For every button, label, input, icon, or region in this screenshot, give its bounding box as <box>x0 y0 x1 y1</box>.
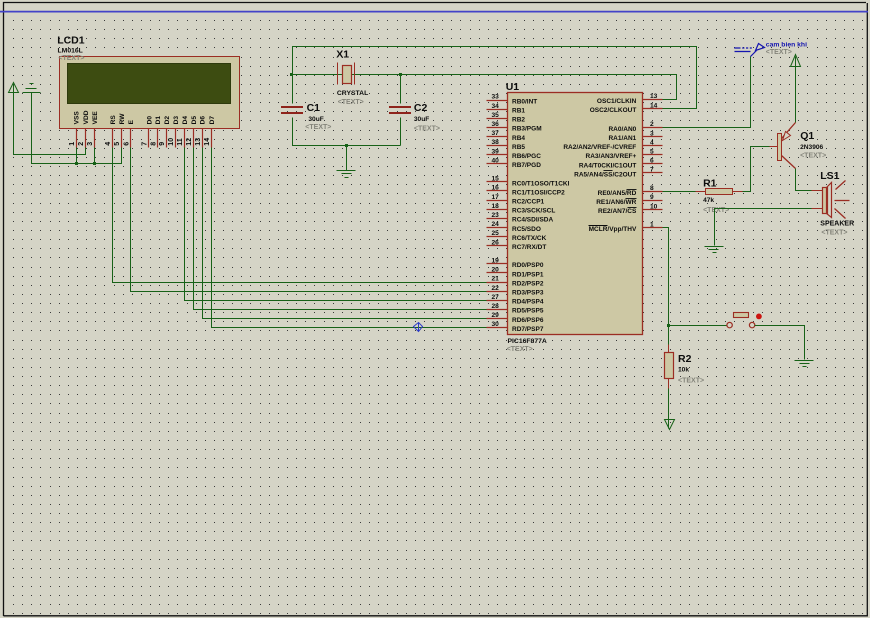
svg-text:RE2/AN7/CS: RE2/AN7/CS <box>598 208 637 215</box>
svg-text:22: 22 <box>491 285 499 292</box>
wire crystal to OSC1 <box>293 75 677 100</box>
svg-text:D7: D7 <box>209 116 216 125</box>
svg-text:RD7/PSP7: RD7/PSP7 <box>512 326 544 333</box>
svg-text:OSC1/CLKIN: OSC1/CLKIN <box>597 98 637 105</box>
wire R1 to Q1 base <box>743 147 770 192</box>
svg-text:30: 30 <box>491 321 499 328</box>
svg-text:26: 26 <box>491 239 499 246</box>
svg-text:RE1/AN6/WR: RE1/AN6/WR <box>596 199 636 206</box>
svg-text:C2: C2 <box>414 102 428 114</box>
svg-text:RB7/PGD: RB7/PGD <box>512 162 541 169</box>
svg-text:10: 10 <box>650 203 658 210</box>
wire button to ground <box>755 326 805 360</box>
svg-text:8: 8 <box>150 142 157 146</box>
wire D4 to RD4(27) <box>185 148 487 301</box>
wire VSS to ground rail <box>76 148 78 164</box>
svg-text:D0: D0 <box>146 116 153 125</box>
svg-text:RC6/TX/CK: RC6/TX/CK <box>512 235 547 242</box>
svg-text:RA0/AN0: RA0/AN0 <box>608 126 636 133</box>
svg-text:25: 25 <box>491 230 499 237</box>
label C1 <box>305 102 331 131</box>
wire D7 to RD7(30) <box>212 148 487 328</box>
svg-text:2: 2 <box>650 121 654 128</box>
wire RS to RD2(21) <box>113 148 487 283</box>
svg-text:8: 8 <box>650 185 654 192</box>
svg-text:RD6/PSP6: RD6/PSP6 <box>512 317 544 324</box>
svg-text:CRYSTAL: CRYSTAL <box>337 90 368 97</box>
svg-text:39: 39 <box>491 148 499 155</box>
junction crystal right <box>399 73 402 76</box>
svg-text:<TEXT>: <TEXT> <box>678 378 704 385</box>
svg-text:14: 14 <box>650 102 658 109</box>
svg-text:D2: D2 <box>164 116 171 125</box>
svg-text:7: 7 <box>142 142 149 146</box>
svg-text:3: 3 <box>650 130 654 137</box>
svg-text:VSS: VSS <box>74 111 81 125</box>
input terminal cam bien khi <box>734 44 764 57</box>
wire power to emitter <box>795 57 797 123</box>
resistor R2 <box>665 345 674 389</box>
junction cap ground <box>345 144 348 147</box>
label Q1 <box>800 130 826 159</box>
svg-text:RD3/PSP3: RD3/PSP3 <box>512 290 544 297</box>
U1 right pin labels <box>563 98 637 233</box>
svg-text:5: 5 <box>114 142 121 146</box>
svg-text:6: 6 <box>650 158 654 165</box>
crystal X1 <box>338 63 355 85</box>
wire C2 branch <box>400 75 402 146</box>
svg-text:RC7/RX/DT: RC7/RX/DT <box>512 244 546 251</box>
svg-text:29: 29 <box>491 312 499 319</box>
svg-text:RC4/SDI/SDA: RC4/SDI/SDA <box>512 217 553 224</box>
svg-text:37: 37 <box>491 130 499 137</box>
svg-text:RW: RW <box>119 113 126 125</box>
ground arrow terminal <box>665 420 675 430</box>
svg-text:20: 20 <box>491 267 499 274</box>
wire ground stem (caps) <box>346 146 348 171</box>
svg-text:RD1/PSP1: RD1/PSP1 <box>512 271 544 278</box>
label R1 <box>703 177 729 213</box>
svg-text:<TEXT>: <TEXT> <box>766 49 792 56</box>
label LS1 <box>820 170 854 237</box>
svg-text:RB2: RB2 <box>512 117 525 124</box>
svg-text:RB3/PGM: RB3/PGM <box>512 126 542 133</box>
svg-text:C1: C1 <box>307 102 321 114</box>
svg-text:18: 18 <box>491 203 499 210</box>
speaker LS1 <box>812 181 850 219</box>
power terminal (Q1 emitter) <box>791 55 801 67</box>
svg-text:RD4/PSP4: RD4/PSP4 <box>512 299 544 306</box>
label C2 <box>414 102 440 132</box>
svg-text:RB6/PGC: RB6/PGC <box>512 153 541 160</box>
svg-text:RB4: RB4 <box>512 135 525 142</box>
svg-text:RD5/PSP5: RD5/PSP5 <box>512 308 544 315</box>
svg-text:27: 27 <box>491 294 499 301</box>
resistor R1 <box>696 189 743 195</box>
svg-text:<TEXT>: <TEXT> <box>338 99 364 106</box>
junction crystal left <box>290 73 293 76</box>
svg-text:VDD: VDD <box>83 110 90 124</box>
wire R2 to ground arrow <box>668 389 670 429</box>
svg-text:23: 23 <box>491 212 499 219</box>
label U1 <box>506 81 547 353</box>
svg-text:LCD1: LCD1 <box>57 35 85 47</box>
svg-text:SPEAKER: SPEAKER <box>820 221 854 228</box>
svg-text:cam bien khi: cam bien khi <box>766 41 807 48</box>
wire speaker to ground <box>715 209 812 246</box>
svg-text:9: 9 <box>159 142 166 146</box>
wire E to RD3(22) <box>131 148 487 292</box>
junction VSS-ground <box>75 162 78 165</box>
svg-text:9: 9 <box>650 194 654 201</box>
svg-text:17: 17 <box>491 194 499 201</box>
svg-text:30uF: 30uF <box>414 116 429 123</box>
microcontroller U1 PIC16F877A body <box>508 93 643 335</box>
svg-text:VEE: VEE <box>92 111 99 125</box>
svg-text:12: 12 <box>186 138 193 146</box>
svg-text:3: 3 <box>87 142 94 146</box>
svg-text:PIC16F877A: PIC16F877A <box>508 338 547 345</box>
svg-text:RA2/AN2/VREF-/CVREF: RA2/AN2/VREF-/CVREF <box>563 144 636 151</box>
svg-text:<TEXT>: <TEXT> <box>821 229 847 236</box>
svg-text:1: 1 <box>650 221 654 228</box>
wire C1 bottom rail to C2 <box>293 118 401 146</box>
svg-text:RD0/PSP0: RD0/PSP0 <box>512 262 544 269</box>
svg-text:D6: D6 <box>200 116 207 125</box>
svg-text:D5: D5 <box>191 116 198 125</box>
svg-text:OSC2/CLKOUT: OSC2/CLKOUT <box>590 107 637 114</box>
svg-text:2: 2 <box>78 142 85 146</box>
capacitor C1 <box>281 106 303 114</box>
svg-text:11: 11 <box>177 138 184 146</box>
svg-text:35: 35 <box>491 112 499 119</box>
U1 right pin stubs <box>643 100 663 228</box>
svg-text:Q1: Q1 <box>800 130 814 142</box>
svg-text:28: 28 <box>491 303 499 310</box>
svg-text:MCLR/Vpp/THV: MCLR/Vpp/THV <box>589 226 637 233</box>
label cam bien khi <box>766 41 807 55</box>
ground (button) <box>795 361 814 367</box>
U1 right pin numbers <box>650 93 658 228</box>
svg-text:21: 21 <box>491 276 499 283</box>
svg-text:30uF: 30uF <box>308 116 323 123</box>
svg-text:RB1: RB1 <box>512 108 525 115</box>
U1 left pin labels <box>512 98 570 333</box>
svg-text:RA1/AN1: RA1/AN1 <box>608 135 636 142</box>
junction VEE-ground <box>93 162 96 165</box>
power terminal (VDD) <box>9 83 19 93</box>
junction MCLR-button <box>667 324 670 327</box>
svg-text:10: 10 <box>168 138 175 146</box>
LCD1 pin numbers 1-14 <box>69 138 211 146</box>
svg-text:<TEXT>: <TEXT> <box>305 124 331 131</box>
svg-text:19: 19 <box>491 258 499 265</box>
push button <box>727 313 762 328</box>
wire collector to speaker <box>796 169 812 191</box>
node marker on D7 wire <box>414 323 423 332</box>
wire junction to button <box>669 325 727 327</box>
U1 left pin stubs <box>487 101 508 328</box>
wire power stem to VDD rail <box>14 85 86 155</box>
svg-text:RD2/PSP2: RD2/PSP2 <box>512 280 544 287</box>
svg-text:<TEXT>: <TEXT> <box>703 207 729 214</box>
wire RE0 to R1 <box>663 191 696 193</box>
svg-text:<TEXT>: <TEXT> <box>800 152 826 159</box>
LCD1 pin name labels <box>74 110 216 124</box>
U1 overlines (SS,RD,WR,CS,MCLR) <box>589 171 637 226</box>
svg-text:38: 38 <box>491 139 499 146</box>
svg-text:10k: 10k <box>678 367 689 374</box>
label R2 <box>678 353 704 385</box>
transistor Q1 2N3906 <box>770 123 796 169</box>
svg-text:R1: R1 <box>703 177 717 189</box>
label X1 <box>336 49 368 106</box>
svg-text:RS: RS <box>110 115 117 125</box>
svg-text:U1: U1 <box>506 81 520 93</box>
svg-text:RC2/CCP1: RC2/CCP1 <box>512 199 545 206</box>
svg-text:E: E <box>128 119 135 124</box>
wire MCLR down <box>663 228 669 345</box>
svg-text:4: 4 <box>105 142 112 146</box>
svg-text:D4: D4 <box>182 116 189 125</box>
capacitor C2 <box>389 106 411 114</box>
svg-text:14: 14 <box>204 138 211 146</box>
svg-text:D1: D1 <box>155 116 162 125</box>
svg-text:5: 5 <box>650 149 654 156</box>
wire OSC2 top rail <box>293 47 697 109</box>
svg-text:RC3/SCK/SCL: RC3/SCK/SCL <box>512 208 555 215</box>
svg-text:33: 33 <box>491 94 499 101</box>
svg-text:D3: D3 <box>173 116 180 125</box>
ground (caps) <box>337 171 356 178</box>
svg-text:RC5/SDO: RC5/SDO <box>512 226 541 233</box>
wire D5 to RD5(28) <box>194 148 487 310</box>
wire D6 to RD6(29) <box>203 148 487 319</box>
svg-text:RB5: RB5 <box>512 144 525 151</box>
svg-text:16: 16 <box>491 185 499 192</box>
svg-text:34: 34 <box>491 103 499 110</box>
label LCD1 <box>57 35 85 63</box>
svg-text:RA3/AN3/VREF+: RA3/AN3/VREF+ <box>586 153 637 160</box>
svg-text:36: 36 <box>491 121 499 128</box>
LCD1 pin stubs 1-14 <box>77 129 212 148</box>
svg-text:RA4/T0CKI/C1OUT: RA4/T0CKI/C1OUT <box>579 162 636 169</box>
svg-text:47k: 47k <box>703 197 714 204</box>
svg-text:1: 1 <box>69 142 76 146</box>
ground (speaker) <box>705 247 724 253</box>
wire ground rail (VSS,VEE,RW) <box>32 93 122 164</box>
svg-text:LS1: LS1 <box>820 170 839 182</box>
svg-text:6: 6 <box>123 142 130 146</box>
svg-text:<TEXT>: <TEXT> <box>507 346 533 353</box>
svg-text:<TEXT>: <TEXT> <box>58 55 84 62</box>
U1 left pin numbers <box>491 94 499 329</box>
svg-text:13: 13 <box>195 138 202 146</box>
wire VEE to ground rail <box>94 148 96 164</box>
svg-text:RC0/T1OSO/T1CKI: RC0/T1OSO/T1CKI <box>512 180 570 187</box>
wire RA0 to sensor terminal <box>663 57 751 128</box>
svg-text:7: 7 <box>650 167 654 174</box>
svg-text:4: 4 <box>650 139 654 146</box>
svg-text:15: 15 <box>491 176 499 183</box>
svg-text:2N3906: 2N3906 <box>800 144 823 151</box>
LCD display LCD1 (LM016L) <box>60 57 240 129</box>
svg-text:RA5/AN4/SS/C2OUT: RA5/AN4/SS/C2OUT <box>574 171 636 178</box>
svg-text:R2: R2 <box>678 353 692 365</box>
svg-text:13: 13 <box>650 93 658 100</box>
svg-text:40: 40 <box>491 157 499 164</box>
svg-text:X1: X1 <box>336 49 349 61</box>
svg-text:24: 24 <box>491 221 499 228</box>
svg-text:LM016L: LM016L <box>58 48 83 55</box>
svg-text:RB0/INT: RB0/INT <box>512 98 537 105</box>
svg-text:<TEXT>: <TEXT> <box>414 125 440 132</box>
ground terminal (LCD) <box>23 84 41 93</box>
svg-text:RE0/AN5/RD: RE0/AN5/RD <box>598 190 637 197</box>
svg-text:RC1/T1OSI/CCP2: RC1/T1OSI/CCP2 <box>512 189 565 196</box>
